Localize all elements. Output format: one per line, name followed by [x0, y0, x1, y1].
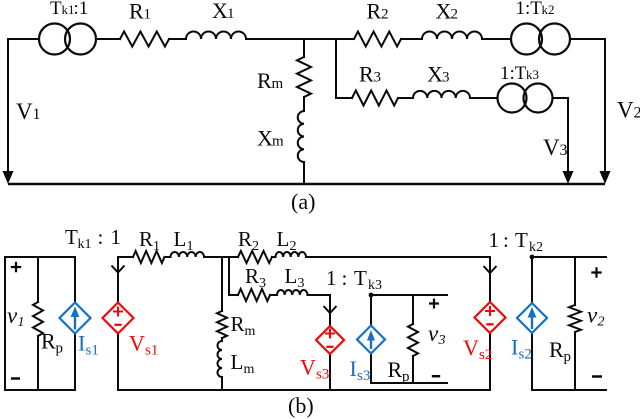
- svg-text:(a): (a): [291, 189, 315, 214]
- svg-text:(b): (b): [288, 393, 314, 418]
- svg-text:1:Tk2: 1:Tk2: [516, 0, 555, 19]
- svg-text:Tk1:1: Tk1:1: [50, 0, 88, 19]
- svg-text:1:Tk3: 1:Tk3: [500, 63, 539, 84]
